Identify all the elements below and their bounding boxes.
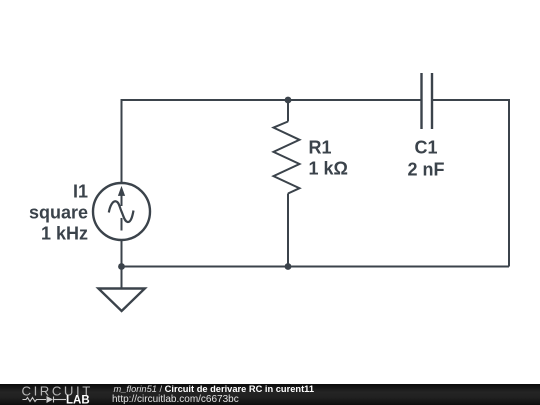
wire top-middle segment — [288, 99, 422, 101]
wire left top — [121, 99, 123, 183]
label C1 — [407, 138, 444, 180]
wire bottom — [122, 266, 510, 268]
footer title text — [114, 384, 315, 394]
svg-text:2 nF: 2 nF — [407, 160, 444, 180]
node dot ground — [118, 263, 125, 270]
svg-text:I1: I1 — [73, 182, 88, 202]
CircuitLab logo — [0, 384, 110, 405]
capacitor C1 — [422, 73, 433, 129]
svg-text:1 kΩ: 1 kΩ — [309, 159, 348, 179]
label R1 — [309, 138, 348, 179]
node dot bottom — [285, 263, 292, 270]
svg-text:R1: R1 — [309, 138, 332, 158]
wire left bottom — [121, 240, 123, 267]
label I1 — [29, 182, 88, 244]
node dot top — [285, 97, 292, 104]
wire top-right segment — [432, 99, 509, 101]
svg-text:1 kHz: 1 kHz — [41, 224, 88, 244]
resistor R1 — [274, 100, 300, 267]
footer bar — [0, 384, 540, 405]
current source I1 — [93, 183, 150, 240]
footer url text — [112, 395, 239, 405]
svg-text:LAB: LAB — [66, 395, 90, 405]
ground — [98, 267, 144, 312]
wire right side — [508, 99, 510, 267]
svg-text:square: square — [29, 203, 88, 223]
svg-text:C1: C1 — [414, 138, 437, 158]
wire top-left segment — [122, 99, 289, 101]
